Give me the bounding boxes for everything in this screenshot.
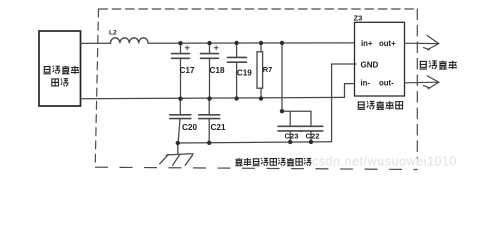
svg-text:out-: out-: [379, 79, 394, 88]
node C17 top: [178, 41, 182, 45]
capacitor C19: [228, 43, 247, 99]
wire out+ arrow: [405, 35, 439, 49]
output rectifier block: [39, 31, 81, 106]
svg-text:in+: in+: [361, 39, 373, 48]
text 输出直流的滤波电路 bottom caption: [235, 158, 311, 166]
svg-text:in-: in-: [361, 79, 371, 88]
wire in- jog: [345, 84, 355, 98]
node R7 bottom: [259, 96, 263, 100]
node C18 top: [207, 41, 211, 45]
svg-text:C21: C21: [211, 123, 226, 132]
capacitor C21: [199, 99, 220, 143]
svg-text:L2: L2: [109, 30, 117, 37]
node C18 bottom: [207, 96, 211, 100]
node C23 gnd: [288, 140, 292, 144]
svg-text:Z3: Z3: [354, 14, 363, 23]
svg-text:csdn.net/wusuowei1010: csdn.net/wusuowei1010: [312, 155, 457, 169]
node ground stub: [176, 141, 180, 145]
svg-text:C17: C17: [180, 66, 195, 75]
dashed box top: [99, 8, 418, 10]
svg-text:C19: C19: [237, 68, 252, 77]
node C19 top: [234, 41, 238, 45]
ground: [160, 143, 193, 165]
node Ycap top: [280, 41, 284, 45]
capacitor C22: [300, 111, 323, 142]
node C22 gnd: [309, 140, 313, 144]
svg-text:C18: C18: [210, 66, 225, 75]
text 输出整流 line1 of rectifier box: [43, 66, 79, 74]
ground bus wire: [178, 142, 332, 143]
wire GND pin to ground bus: [332, 64, 356, 142]
capacitor C20: [170, 99, 191, 143]
wire out- arrow: [405, 76, 439, 89]
node Ycap wire: [280, 109, 284, 113]
inductor L2: [110, 38, 148, 43]
wire top rail: [81, 42, 111, 44]
capacitor C17: [172, 43, 190, 98]
svg-text:out+: out+: [379, 39, 396, 48]
svg-text:C23: C23: [285, 132, 299, 141]
resistor R7: [257, 43, 263, 99]
text 直流滤波器 DC filter caption: [357, 101, 402, 109]
capacitor C18: [201, 43, 219, 99]
node C21 gnd: [207, 141, 211, 145]
dashed box right: [416, 9, 418, 158]
dashed box left: [95, 9, 98, 167]
node R7 top: [259, 41, 263, 45]
dashed filter enclosure: [95, 9, 417, 170]
text 电路 line2 of rectifier box: [52, 79, 69, 87]
capacitor C23: [278, 111, 302, 142]
dashed box bottom: [96, 167, 418, 169]
node C17 bottom: [178, 97, 182, 101]
text 直流输出 DC output: [419, 61, 456, 69]
svg-text:C20: C20: [182, 123, 197, 132]
wire Y-cap feed from top rail: [281, 43, 283, 111]
EMI filter U Z3: [355, 22, 405, 96]
svg-text:GND: GND: [361, 60, 379, 69]
node C19 bottom: [234, 96, 238, 100]
wire bottom rail: [81, 97, 345, 98]
svg-text:C22: C22: [306, 132, 320, 141]
svg-text:R7: R7: [263, 65, 272, 74]
junction dots: [176, 41, 314, 146]
